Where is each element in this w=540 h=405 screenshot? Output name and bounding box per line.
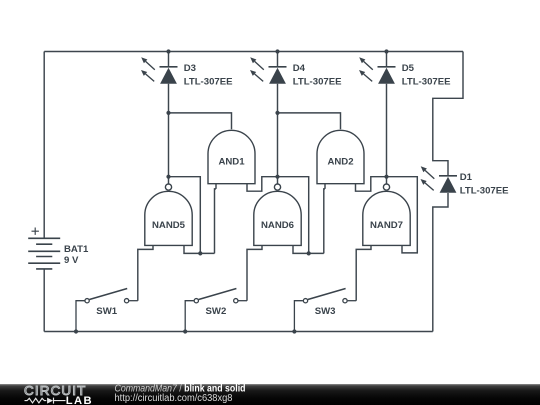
svg-text:LTL-307EE: LTL-307EE: [460, 186, 509, 197]
wire NAND7 input A to SW3: [356, 245, 371, 300]
LED D1: [421, 166, 458, 192]
wire NAND6 output feedback: [278, 177, 309, 254]
switch SW3: [294, 289, 356, 332]
wire top rail: [44, 51, 463, 53]
svg-text:SW2: SW2: [206, 306, 227, 317]
node NAND6 input B junction: [307, 251, 311, 255]
svg-text:D1: D1: [460, 172, 473, 183]
svg-text:D4: D4: [293, 63, 306, 74]
wire NAND6 input A to SW2: [247, 245, 262, 300]
node SW2 bottom rail: [183, 329, 187, 333]
svg-text:SW1: SW1: [96, 306, 117, 317]
wire D4 column: [277, 52, 279, 184]
wire NAND6 input B stub: [293, 245, 324, 253]
node SW1 bottom rail: [74, 329, 78, 333]
svg-text:9 V: 9 V: [64, 255, 79, 266]
node NAND5 input B junction: [198, 251, 202, 255]
battery BAT1: [28, 228, 60, 269]
wire bottom rail: [44, 331, 433, 333]
node NAND7 output: [384, 175, 388, 179]
LED D5: [359, 57, 396, 83]
svg-text:LTL-307EE: LTL-307EE: [184, 77, 233, 88]
svg-text:BAT1: BAT1: [64, 244, 89, 255]
LED D3: [141, 57, 178, 83]
NAND gate NAND5: [145, 184, 192, 245]
wire right branch through D1: [433, 52, 463, 332]
wire AND2 input B to NAND7 output: [356, 177, 387, 192]
svg-text:AND2: AND2: [327, 157, 353, 168]
wire NAND7 output to its input B: [387, 177, 418, 253]
switch SW1: [76, 289, 138, 332]
wire AND1 output to node D3: [169, 113, 232, 129]
svg-text:NAND7: NAND7: [370, 220, 403, 231]
node D5 top rail: [384, 49, 388, 53]
node dots: [74, 49, 389, 333]
wire NAND5 input B stub: [184, 245, 215, 253]
node D4 anode / AND2 out: [275, 111, 279, 115]
wire AND1 input B to NAND6 output: [247, 177, 278, 192]
wire D5 column: [386, 52, 388, 184]
svg-text:NAND6: NAND6: [261, 220, 294, 231]
svg-text:LAB: LAB: [66, 395, 93, 405]
wire battery negative to bottom rail: [43, 269, 45, 332]
wire left rail: [43, 52, 45, 239]
svg-text:AND1: AND1: [218, 157, 245, 168]
NAND gate NAND7: [363, 184, 410, 245]
svg-text:LTL-307EE: LTL-307EE: [293, 77, 342, 88]
svg-text:SW3: SW3: [315, 306, 336, 317]
NAND gate NAND6: [254, 184, 301, 245]
wire riser to AND2 input A: [324, 184, 325, 253]
footer bar: [0, 384, 540, 405]
switch SW2: [185, 289, 247, 332]
node NAND6 output: [275, 175, 279, 179]
svg-text:http://circuitlab.com/c638xg8: http://circuitlab.com/c638xg8: [115, 393, 233, 404]
AND gate AND1: [208, 130, 255, 183]
node D4 top rail: [275, 49, 279, 53]
wire AND2 output to node D4: [278, 113, 341, 129]
svg-text:D5: D5: [402, 63, 415, 74]
wire NAND5 input A to SW1: [138, 245, 153, 300]
LED D4: [250, 57, 287, 83]
wire NAND5 output feedback: [169, 177, 201, 254]
logo resistor-diode symbol: [25, 398, 66, 404]
wire riser to AND1 input A: [215, 184, 217, 253]
svg-text:D3: D3: [184, 63, 196, 74]
node D3 anode / AND1 out: [166, 111, 170, 115]
wire D3 column: [168, 52, 170, 184]
svg-text:NAND5: NAND5: [152, 220, 186, 231]
node NAND5 output: [166, 175, 170, 179]
node D3 top rail: [166, 49, 170, 53]
AND gate AND2: [317, 130, 364, 183]
node SW3 bottom rail: [292, 329, 296, 333]
svg-text:LTL-307EE: LTL-307EE: [402, 77, 451, 88]
